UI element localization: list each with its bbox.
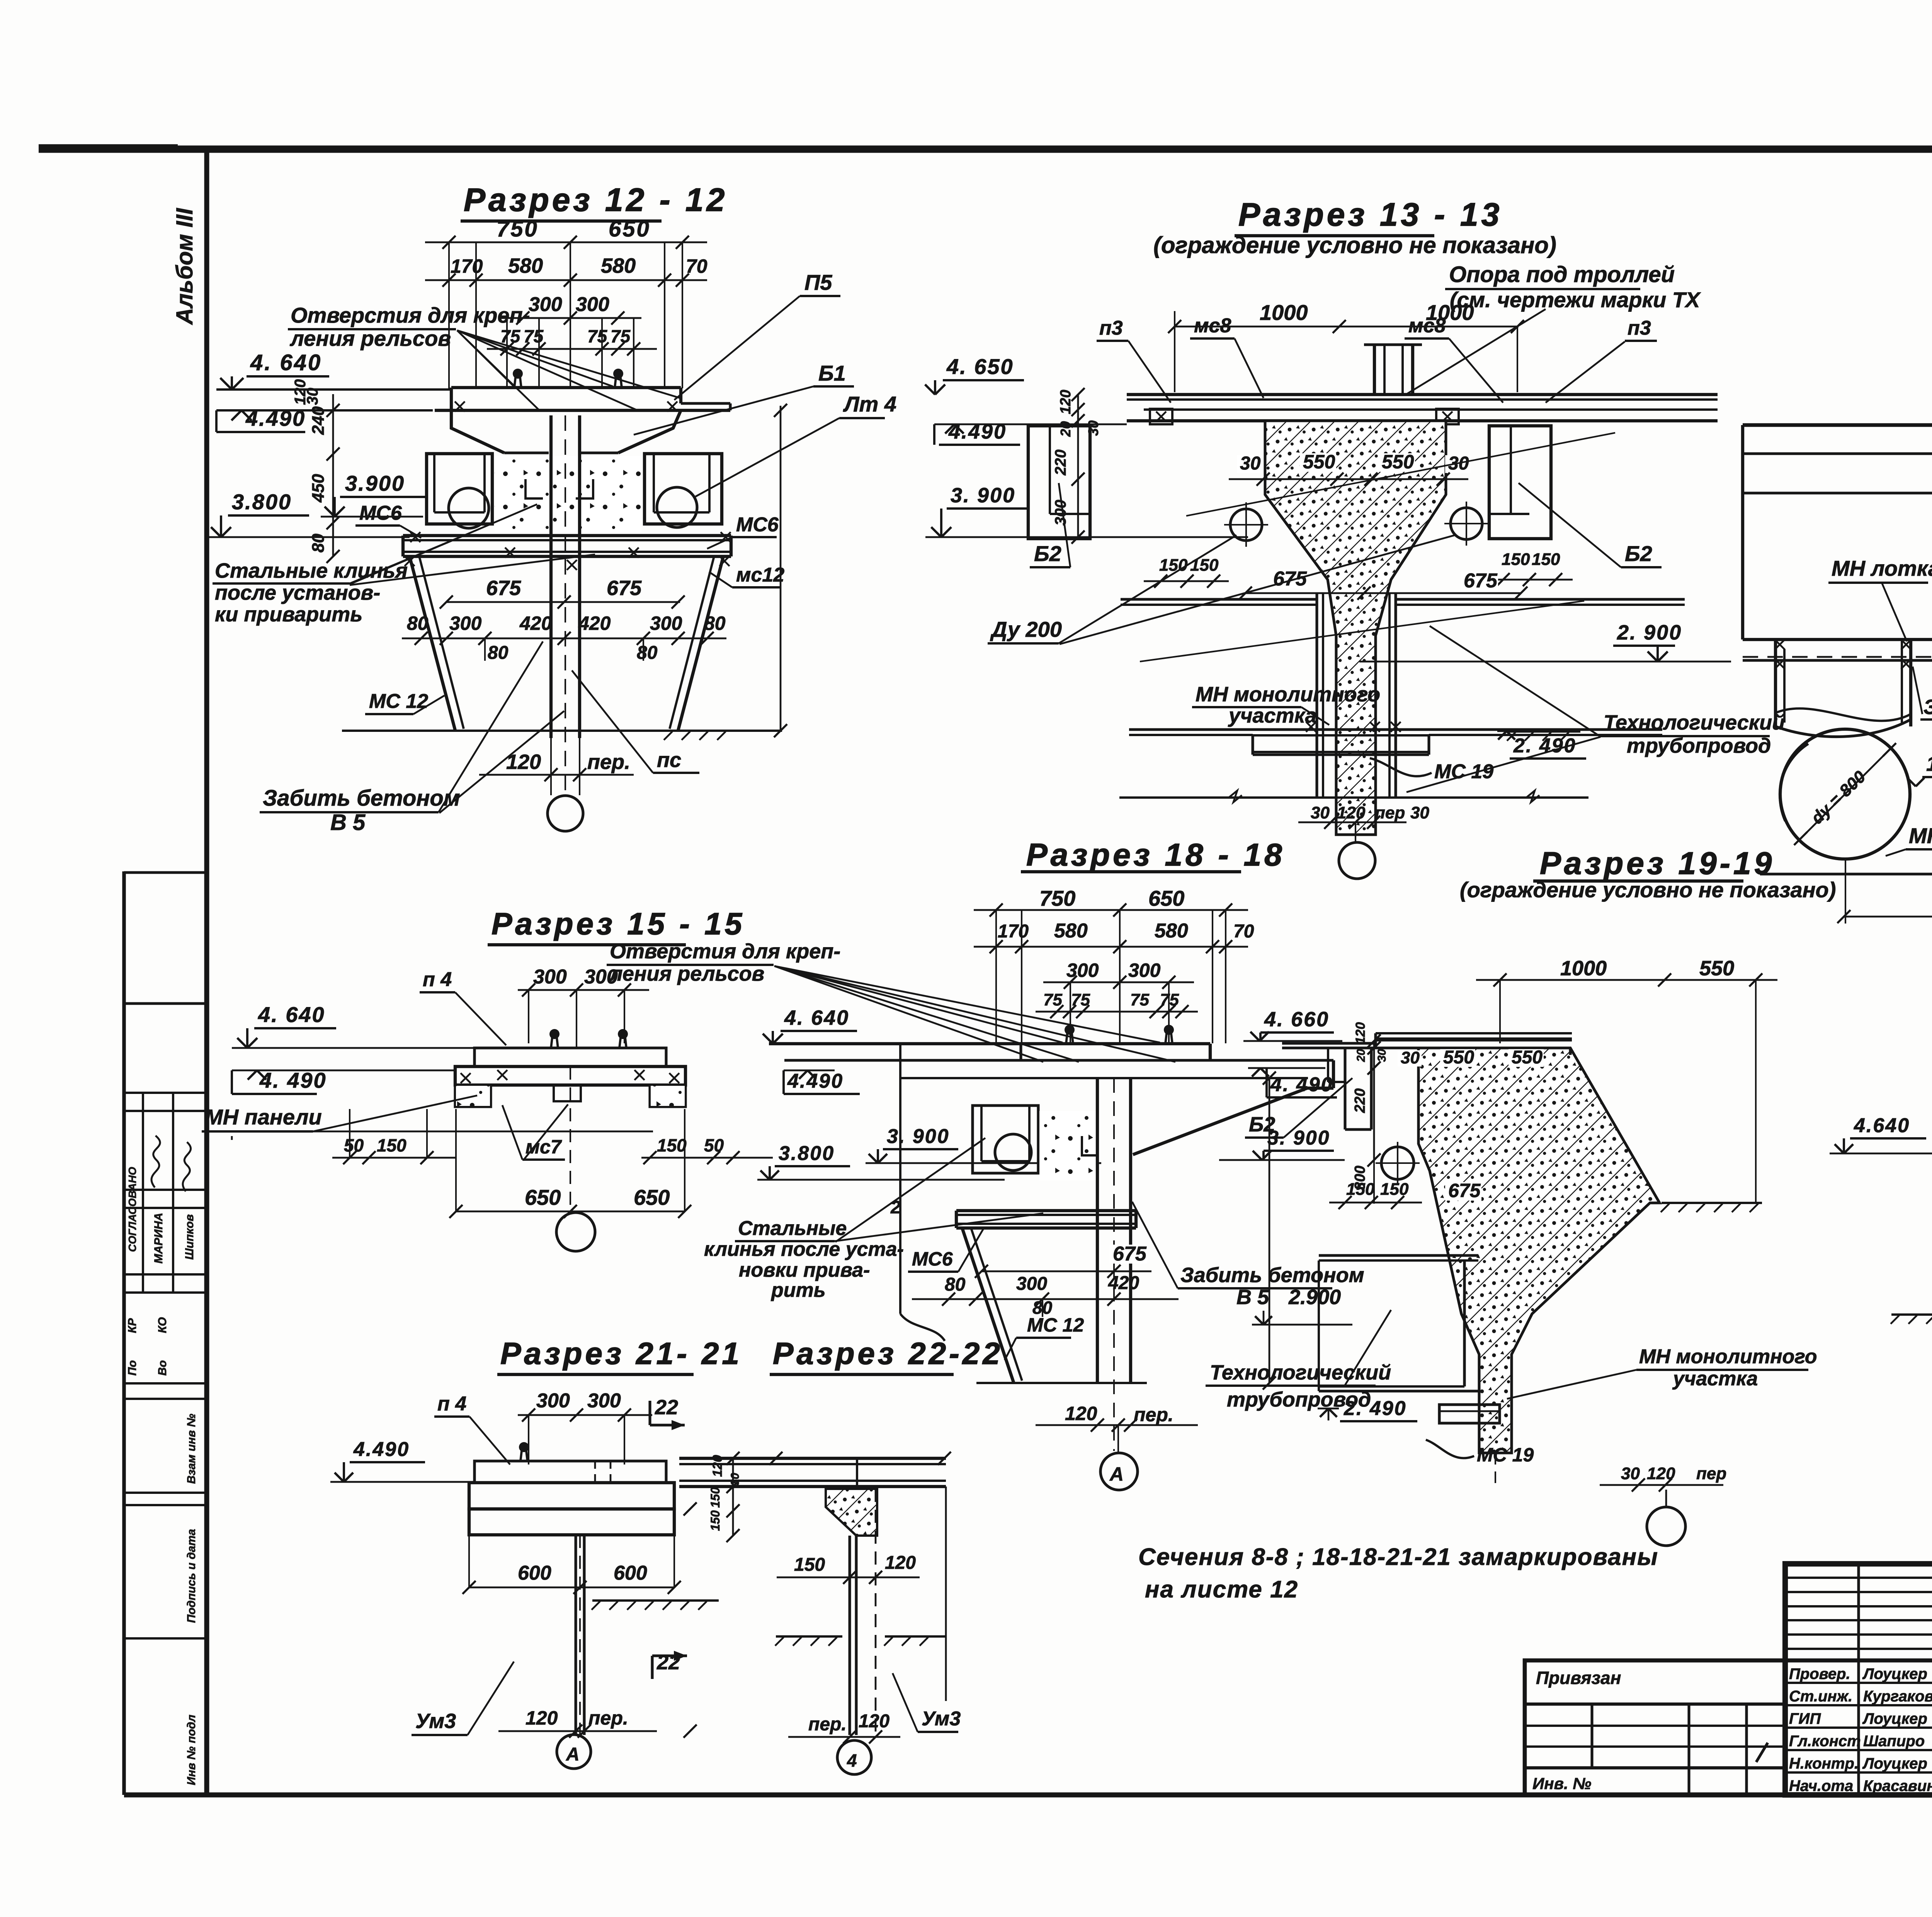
svg-text:580: 580 xyxy=(508,254,543,277)
svg-text:150: 150 xyxy=(708,1487,722,1508)
svg-text:Сечения 8-8 ; 18-18-21-21 зама: Сечения 8-8 ; 18-18-21-21 замаркированы xyxy=(1138,1544,1658,1570)
svg-text:300: 300 xyxy=(536,1390,570,1412)
svg-text:80: 80 xyxy=(704,612,726,634)
svg-text:По: По xyxy=(126,1360,139,1376)
svg-text:Разрез 18 - 18: Разрез 18 - 18 xyxy=(1026,837,1285,873)
svg-text:30: 30 xyxy=(1621,1464,1640,1483)
svg-text:150: 150 xyxy=(1190,556,1219,575)
svg-text:120: 120 xyxy=(710,1455,725,1477)
svg-text:А: А xyxy=(566,1744,580,1765)
svg-text:мс8: мс8 xyxy=(1194,315,1231,337)
svg-text:Отверстия для креп-: Отверстия для креп- xyxy=(610,940,840,963)
svg-text:КР: КР xyxy=(126,1318,139,1333)
svg-text:мс12: мс12 xyxy=(736,564,784,586)
svg-text:120: 120 xyxy=(1337,803,1366,822)
svg-text:пер: пер xyxy=(1696,1464,1726,1483)
svg-text:МН панели: МН панели xyxy=(1909,823,1932,848)
svg-text:120: 120 xyxy=(1058,390,1074,414)
svg-text:420: 420 xyxy=(1108,1273,1139,1293)
svg-text:МС 12: МС 12 xyxy=(369,690,428,713)
svg-text:675: 675 xyxy=(1273,568,1307,590)
svg-text:мс8: мс8 xyxy=(1408,315,1446,337)
svg-text:Отверстия для креп-: Отверстия для креп- xyxy=(291,303,530,327)
svg-text:трубопровод: трубопровод xyxy=(1227,1388,1371,1411)
svg-text:150: 150 xyxy=(1502,550,1530,569)
svg-text:Инв № подл: Инв № подл xyxy=(185,1715,198,1785)
svg-text:МС6: МС6 xyxy=(912,1248,953,1270)
svg-text:1000: 1000 xyxy=(1260,300,1308,325)
svg-text:Шипков: Шипков xyxy=(183,1214,196,1260)
svg-text:220: 220 xyxy=(1352,1089,1368,1113)
svg-text:550: 550 xyxy=(1443,1047,1474,1068)
svg-text:30: 30 xyxy=(1376,1049,1388,1062)
svg-text:675: 675 xyxy=(1113,1243,1147,1265)
svg-text:ки приварить: ки приварить xyxy=(215,603,362,626)
svg-text:трубопровод: трубопровод xyxy=(1627,734,1771,757)
svg-text:Технологический: Технологический xyxy=(1604,711,1785,734)
svg-text:650: 650 xyxy=(609,216,651,242)
svg-text:30: 30 xyxy=(1085,420,1101,436)
svg-text:80: 80 xyxy=(309,534,328,553)
svg-text:Лоуцкер: Лоуцкер xyxy=(1862,1710,1927,1727)
svg-text:Б1: Б1 xyxy=(818,361,846,385)
svg-text:120: 120 xyxy=(859,1711,889,1732)
svg-text:2. 900: 2. 900 xyxy=(1617,621,1682,644)
svg-text:170: 170 xyxy=(451,255,483,277)
svg-text:300: 300 xyxy=(576,293,609,316)
svg-text:550: 550 xyxy=(1512,1047,1543,1068)
svg-text:мс7: мс7 xyxy=(526,1136,562,1158)
svg-text:580: 580 xyxy=(601,254,636,277)
svg-text:650: 650 xyxy=(634,1185,670,1209)
svg-text:Разрез 15 - 15: Разрез 15 - 15 xyxy=(492,907,745,941)
svg-text:Нач.ота: Нач.ота xyxy=(1789,1778,1853,1795)
svg-text:А: А xyxy=(1109,1463,1124,1485)
svg-text:ГИП: ГИП xyxy=(1789,1710,1821,1727)
svg-text:80: 80 xyxy=(407,612,429,634)
svg-text:Ум3: Ум3 xyxy=(415,1709,456,1733)
svg-text:Кургакова: Кургакова xyxy=(1863,1688,1932,1705)
svg-text:Провер.: Провер. xyxy=(1789,1665,1850,1682)
svg-text:550: 550 xyxy=(1303,451,1335,473)
svg-text:4. 650: 4. 650 xyxy=(946,354,1014,379)
svg-text:Забить бетоном: Забить бетоном xyxy=(1180,1264,1364,1287)
svg-text:3.800: 3.800 xyxy=(232,490,292,514)
svg-text:4. 660: 4. 660 xyxy=(1264,1008,1329,1031)
svg-text:300: 300 xyxy=(533,966,567,988)
svg-text:420: 420 xyxy=(578,612,611,634)
svg-text:675: 675 xyxy=(1464,570,1498,592)
svg-text:Б2: Б2 xyxy=(1625,541,1652,566)
svg-text:Б2: Б2 xyxy=(1249,1113,1275,1136)
svg-text:Забить бетоном: Забить бетоном xyxy=(263,786,460,811)
svg-text:30: 30 xyxy=(1311,803,1330,822)
svg-text:580: 580 xyxy=(1054,920,1088,942)
svg-text:650: 650 xyxy=(1148,886,1184,910)
svg-text:20: 20 xyxy=(1058,421,1073,437)
svg-text:Стальные: Стальные xyxy=(738,1217,847,1240)
svg-text:Гл.конст: Гл.конст xyxy=(1789,1733,1861,1750)
svg-text:Лт 4: Лт 4 xyxy=(843,392,896,416)
svg-text:МС 19: МС 19 xyxy=(1477,1444,1534,1466)
svg-text:МС6: МС6 xyxy=(736,514,779,536)
svg-text:300: 300 xyxy=(587,1390,621,1412)
svg-text:Разрез 13 - 13: Разрез 13 - 13 xyxy=(1238,196,1502,233)
svg-text:(см. чертежи марки ТХ: (см. чертежи марки ТХ xyxy=(1450,287,1701,312)
svg-text:рить: рить xyxy=(770,1279,826,1301)
svg-text:пер.: пер. xyxy=(1134,1404,1173,1425)
svg-text:80: 80 xyxy=(945,1274,966,1295)
svg-text:п 4: п 4 xyxy=(437,1393,466,1415)
svg-text:150: 150 xyxy=(377,1135,406,1155)
svg-text:СОГЛАСОВАНО: СОГЛАСОВАНО xyxy=(126,1167,138,1252)
svg-text:Разрез 21- 21: Разрез 21- 21 xyxy=(500,1336,742,1371)
svg-text:1. 950: 1. 950 xyxy=(1926,752,1932,776)
svg-text:30: 30 xyxy=(729,1473,742,1486)
svg-text:120: 120 xyxy=(526,1707,558,1729)
svg-text:Разрез 12 - 12: Разрез 12 - 12 xyxy=(464,182,728,218)
svg-text:75: 75 xyxy=(587,326,608,346)
svg-text:Разрез 22-22: Разрез 22-22 xyxy=(773,1336,1003,1371)
svg-text:550: 550 xyxy=(1382,451,1414,473)
svg-text:550: 550 xyxy=(1699,957,1734,980)
svg-text:пер: пер xyxy=(1375,803,1405,822)
svg-text:600: 600 xyxy=(518,1562,551,1584)
svg-text:3.900: 3.900 xyxy=(345,471,405,495)
svg-text:750: 750 xyxy=(497,216,539,242)
svg-text:КО: КО xyxy=(156,1317,169,1333)
svg-text:Ст.инж.: Ст.инж. xyxy=(1789,1688,1852,1705)
svg-text:новки прива-: новки прива- xyxy=(739,1259,870,1281)
svg-text:650: 650 xyxy=(525,1185,561,1209)
svg-text:п 4: п 4 xyxy=(423,968,452,991)
svg-text:70: 70 xyxy=(1233,921,1254,942)
svg-text:МН монолитного: МН монолитного xyxy=(1196,683,1380,706)
svg-text:750: 750 xyxy=(1039,886,1075,910)
svg-text:МС 19: МС 19 xyxy=(1434,760,1493,783)
svg-text:Подпись и дата: Подпись и дата xyxy=(185,1529,198,1623)
svg-text:150: 150 xyxy=(708,1510,722,1531)
svg-text:675: 675 xyxy=(486,577,521,600)
svg-text:30: 30 xyxy=(1240,453,1261,474)
svg-text:120: 120 xyxy=(1065,1403,1097,1424)
svg-text:Привязан: Привязан xyxy=(1536,1668,1621,1688)
svg-text:пер.: пер. xyxy=(587,750,630,774)
svg-text:МС 12: МС 12 xyxy=(1027,1314,1084,1336)
svg-text:Лоуцкер: Лоуцкер xyxy=(1862,1755,1927,1772)
svg-text:Альбом III: Альбом III xyxy=(172,208,197,325)
svg-text:МН лотка: МН лотка xyxy=(1832,556,1932,580)
svg-text:300: 300 xyxy=(1066,959,1099,981)
svg-text:МС6: МС6 xyxy=(359,502,402,524)
svg-text:3. 900: 3. 900 xyxy=(887,1125,950,1148)
svg-text:(ограждение условно не пок: (ограждение условно не показано) xyxy=(1153,232,1556,258)
svg-text:4: 4 xyxy=(847,1750,857,1771)
svg-text:Взам инв №: Взам инв № xyxy=(185,1414,198,1484)
svg-text:МН панели: МН панели xyxy=(205,1105,322,1129)
svg-text:170: 170 xyxy=(998,921,1029,942)
svg-text:Разрез 19-19: Разрез 19-19 xyxy=(1540,846,1775,881)
svg-text:150: 150 xyxy=(657,1135,687,1155)
svg-text:1000: 1000 xyxy=(1560,957,1607,980)
svg-text:4.640: 4.640 xyxy=(1854,1114,1910,1137)
svg-text:4. 640: 4. 640 xyxy=(258,1002,325,1027)
svg-text:75: 75 xyxy=(524,326,544,346)
svg-text:Заварить сплошным: Заварить сплошным xyxy=(1923,696,1932,719)
svg-text:В 5: В 5 xyxy=(330,810,366,835)
svg-text:75: 75 xyxy=(500,326,521,346)
svg-text:450: 450 xyxy=(309,474,328,503)
svg-text:675: 675 xyxy=(1448,1180,1481,1201)
svg-text:Ум3: Ум3 xyxy=(922,1708,961,1730)
svg-text:пс: пс xyxy=(657,748,681,772)
svg-text:3. 900: 3. 900 xyxy=(951,484,1015,507)
svg-text:580: 580 xyxy=(1155,920,1188,942)
svg-text:300: 300 xyxy=(529,293,562,316)
svg-text:п3: п3 xyxy=(1628,317,1651,339)
svg-text:Н.контр.: Н.контр. xyxy=(1789,1755,1859,1772)
svg-text:240: 240 xyxy=(309,406,328,435)
svg-text:4. 640: 4. 640 xyxy=(784,1006,849,1029)
svg-text:70: 70 xyxy=(686,255,707,277)
svg-text:150: 150 xyxy=(794,1555,825,1575)
svg-text:675: 675 xyxy=(607,577,642,600)
svg-text:Б2: Б2 xyxy=(1034,541,1061,566)
svg-text:420: 420 xyxy=(519,612,552,634)
svg-text:600: 600 xyxy=(614,1562,647,1584)
svg-text:4. 490: 4. 490 xyxy=(1270,1073,1333,1096)
svg-text:Лоуцкер: Лоуцкер xyxy=(1862,1665,1927,1682)
svg-text:Во: Во xyxy=(156,1360,169,1376)
svg-text:4. 640: 4. 640 xyxy=(250,350,322,375)
svg-text:300: 300 xyxy=(1016,1274,1047,1294)
svg-text:4.490: 4.490 xyxy=(787,1070,844,1092)
svg-text:220: 220 xyxy=(1052,449,1069,476)
svg-text:пер.: пер. xyxy=(588,1707,628,1729)
svg-text:Технологический: Технологический xyxy=(1210,1361,1391,1384)
svg-text:Инв. №: Инв. № xyxy=(1532,1774,1591,1793)
svg-text:30: 30 xyxy=(304,388,321,405)
svg-text:пер.: пер. xyxy=(808,1714,847,1735)
svg-text:3.800: 3.800 xyxy=(779,1142,835,1165)
svg-text:300: 300 xyxy=(1128,959,1161,981)
svg-text:300: 300 xyxy=(449,612,482,634)
svg-text:(ограждение условно не пока: (ограждение условно не показано) xyxy=(1460,878,1836,902)
svg-text:П5: П5 xyxy=(804,270,832,294)
svg-text:150: 150 xyxy=(1380,1180,1409,1199)
svg-text:на листе 12: на листе 12 xyxy=(1145,1576,1298,1603)
svg-text:300: 300 xyxy=(650,612,682,634)
svg-text:20: 20 xyxy=(1355,1049,1367,1062)
svg-text:150: 150 xyxy=(1532,550,1560,569)
svg-text:80: 80 xyxy=(637,643,658,663)
svg-text:30: 30 xyxy=(1401,1048,1420,1067)
svg-text:Ду 200: Ду 200 xyxy=(990,617,1062,641)
svg-text:120: 120 xyxy=(885,1553,916,1573)
svg-text:22: 22 xyxy=(655,1396,678,1419)
svg-text:75: 75 xyxy=(611,326,631,346)
svg-text:МАРИНА: МАРИНА xyxy=(152,1213,165,1264)
svg-text:Опора под троллей: Опора под троллей xyxy=(1449,262,1675,287)
svg-text:120: 120 xyxy=(1353,1022,1368,1044)
svg-text:Шапиро: Шапиро xyxy=(1863,1733,1925,1750)
svg-text:80: 80 xyxy=(488,643,509,663)
svg-text:150: 150 xyxy=(1159,556,1188,575)
svg-text:4. 490: 4. 490 xyxy=(259,1068,327,1092)
svg-text:Красавин: Красавин xyxy=(1863,1778,1932,1795)
svg-text:п3: п3 xyxy=(1099,317,1123,339)
svg-text:75: 75 xyxy=(1130,990,1149,1009)
svg-text:75: 75 xyxy=(1043,990,1062,1009)
svg-text:4.490: 4.490 xyxy=(353,1438,410,1461)
svg-text:50: 50 xyxy=(704,1135,724,1155)
svg-text:МН монолитного: МН монолитного xyxy=(1639,1345,1817,1368)
svg-text:30: 30 xyxy=(1410,803,1429,822)
